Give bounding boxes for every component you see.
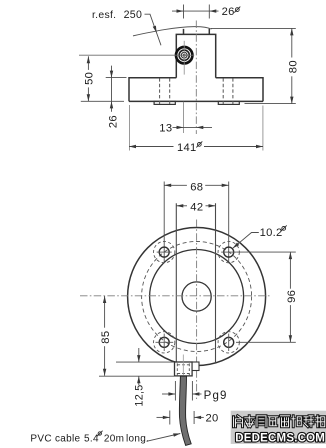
- svg-text:20m: 20m: [104, 434, 124, 445]
- svg-text:80: 80: [287, 60, 299, 73]
- svg-text:26: 26: [222, 6, 235, 18]
- svg-text:r.esf.: r.esf.: [92, 10, 116, 21]
- svg-text:12,5: 12,5: [134, 384, 146, 406]
- svg-text:Pg9: Pg9: [204, 390, 228, 402]
- svg-text:68: 68: [190, 182, 203, 194]
- svg-text:long.: long.: [126, 434, 149, 445]
- svg-text:50: 50: [84, 72, 96, 85]
- svg-text:26: 26: [108, 115, 120, 128]
- svg-text:96: 96: [286, 290, 298, 303]
- svg-text:cable: cable: [55, 434, 81, 445]
- svg-text:141: 141: [177, 142, 197, 154]
- svg-text:85: 85: [100, 331, 112, 344]
- svg-text:13: 13: [159, 122, 172, 134]
- svg-text:5.4: 5.4: [84, 434, 99, 445]
- svg-text:DEDECMS.COM: DEDECMS.COM: [235, 433, 325, 445]
- svg-text:PVC: PVC: [30, 434, 51, 445]
- svg-text:10.2: 10.2: [260, 227, 283, 239]
- svg-text:20: 20: [206, 412, 219, 424]
- svg-text:250: 250: [124, 9, 143, 21]
- svg-text:42: 42: [190, 202, 203, 214]
